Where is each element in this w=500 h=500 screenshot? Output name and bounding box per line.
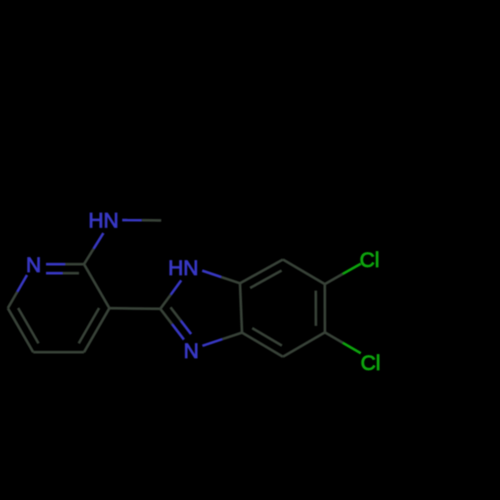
svg-text:HN: HN bbox=[168, 257, 198, 280]
svg-text:N: N bbox=[26, 254, 41, 277]
svg-text:Cl: Cl bbox=[360, 249, 380, 272]
svg-text:Cl: Cl bbox=[361, 352, 381, 375]
svg-text:HN: HN bbox=[88, 210, 118, 233]
svg-text:N: N bbox=[184, 340, 199, 363]
